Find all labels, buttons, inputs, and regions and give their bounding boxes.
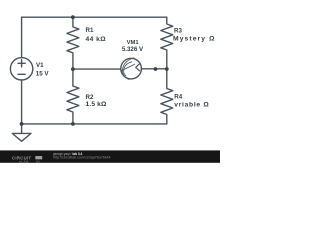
junction dots <box>20 15 169 126</box>
footer bar <box>0 150 220 162</box>
svg-text:1.5 kΩ: 1.5 kΩ <box>86 101 108 108</box>
svg-text:Mystery Ω: Mystery Ω <box>173 36 215 43</box>
wire node to voltmeter <box>73 68 121 70</box>
wire voltmeter to right branch <box>142 68 167 70</box>
node mid R1/R2/VM1 <box>71 67 75 71</box>
node R3/R4 <box>165 67 169 71</box>
svg-text:▸LAB: ▸LAB <box>19 160 30 164</box>
node bottom R2 <box>71 122 75 126</box>
node VM1 right <box>154 67 158 71</box>
wire V1 bottom lead <box>21 80 23 124</box>
resistor R2 <box>67 69 79 124</box>
svg-text:R1: R1 <box>86 27 94 34</box>
wire bottom rail <box>22 123 167 125</box>
ground <box>12 124 31 141</box>
svg-text:V1: V1 <box>36 62 44 69</box>
VM1 needle <box>121 64 135 71</box>
V1 polarity marks <box>18 60 25 75</box>
svg-text:R2: R2 <box>86 94 94 101</box>
node top R1 <box>71 15 75 19</box>
svg-text:http://circuitlab.com/c23qa76u: http://circuitlab.com/c23qa76u7bk44 <box>53 156 111 160</box>
footer logo <box>12 155 42 163</box>
resistor R4 <box>161 69 173 124</box>
voltmeter VM1 body <box>121 58 142 79</box>
VM1 rotated V glyph <box>136 64 140 71</box>
svg-text:15 V: 15 V <box>36 70 50 77</box>
wire V1 top lead <box>21 17 23 57</box>
wire top rail <box>22 16 167 18</box>
resistor R3 <box>161 17 173 69</box>
svg-text:vriable Ω: vriable Ω <box>174 102 209 109</box>
svg-text:44 kΩ: 44 kΩ <box>86 36 107 43</box>
svg-text:R3: R3 <box>174 27 182 34</box>
svg-text:5M: 5M <box>36 160 40 164</box>
voltage source V1 body <box>10 58 32 80</box>
VM1 gauge scale arcs <box>123 58 134 79</box>
svg-text:5.326 V: 5.326 V <box>122 46 144 53</box>
resistor R1 <box>67 17 79 69</box>
footer text <box>53 152 111 160</box>
svg-text:R4: R4 <box>174 94 182 101</box>
labels <box>36 27 215 109</box>
node ground <box>20 122 24 126</box>
